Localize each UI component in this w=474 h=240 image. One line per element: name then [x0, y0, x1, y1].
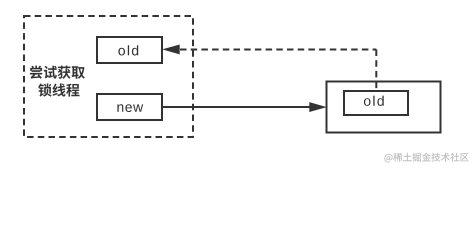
label 尝试获取 (line 1 of 尝试获取锁线程) — [30, 66, 85, 79]
label old (left box) — [118, 45, 138, 55]
label old (right box) — [364, 96, 384, 106]
arrowhead of dashed arrow — [164, 45, 179, 54]
label 锁线程 (line 2) — [38, 83, 79, 96]
label new — [117, 104, 143, 112]
inner box old (right) — [344, 91, 408, 115]
outer box (right) — [327, 82, 441, 133]
box old (left) — [97, 37, 162, 63]
dashed container: lock-acquiring threads group — [24, 16, 193, 137]
watermark @稀土掘金技术社区 — [384, 153, 468, 163]
box new — [97, 94, 162, 120]
wire: dashed arrow vertical segment — [375, 50, 377, 91]
wire: solid arrow new -> right outer box — [163, 106, 311, 108]
arrowhead of solid arrow — [310, 103, 325, 112]
wire: dashed arrow horizontal segment (right box -> old) — [180, 49, 376, 51]
